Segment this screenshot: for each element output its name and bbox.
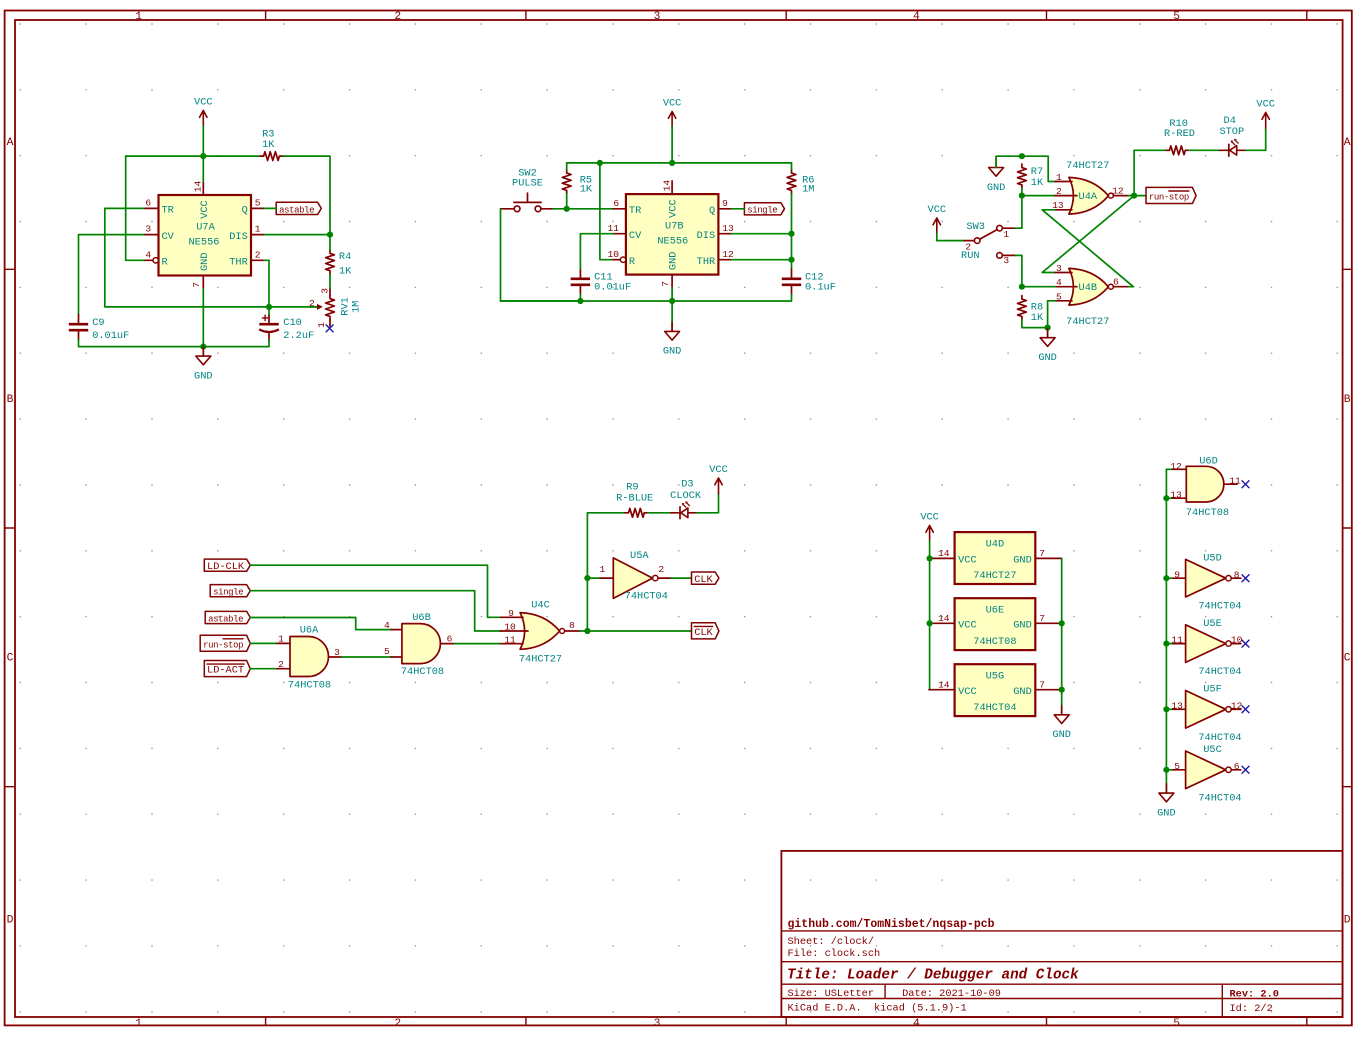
svg-text:CLK: CLK xyxy=(694,574,713,586)
svg-text:CLOCK: CLOCK xyxy=(670,490,702,502)
junction U5C input xyxy=(1163,767,1169,773)
svg-text:5: 5 xyxy=(1173,1018,1180,1030)
wire R10 to D4 xyxy=(1189,149,1220,151)
wire THR to C10 xyxy=(264,260,269,314)
svg-text:U4D: U4D xyxy=(986,539,1005,551)
svg-text:6: 6 xyxy=(145,198,151,209)
wire cross U4B pin3 to U4A out xyxy=(1042,196,1134,273)
svg-text:6: 6 xyxy=(613,198,619,209)
wire U5F stub xyxy=(1166,708,1171,710)
wire pin2 node to U4A pin2 xyxy=(1022,195,1055,197)
wire latch out up to R10 xyxy=(1134,150,1166,195)
svg-text:Size: USLetter: Size: USLetter xyxy=(788,988,875,1000)
svg-text:12: 12 xyxy=(1170,461,1182,472)
power flag GND (unused gates) xyxy=(1157,784,1176,820)
wire R3 to right vertical xyxy=(283,156,330,235)
svg-text:GND: GND xyxy=(1038,352,1057,364)
svg-text:U4B: U4B xyxy=(1079,282,1098,294)
wire cross U4A pin13 to U4B out xyxy=(1042,210,1133,287)
hierarchical label LD-ACT xyxy=(204,661,250,677)
wire VCC vertical (power blocks) xyxy=(929,541,931,690)
svg-text:U6D: U6D xyxy=(1199,455,1218,467)
svg-text:GND: GND xyxy=(194,370,213,382)
junction R7 top rail xyxy=(1019,153,1025,159)
AND gate U6B 74HCT08 xyxy=(384,612,455,678)
svg-text:1: 1 xyxy=(600,564,606,575)
NOR gate U4A 74HCT27 xyxy=(1052,160,1128,214)
switch SW2 PULSE xyxy=(501,167,554,211)
IC U7B NE556 xyxy=(607,180,734,288)
wire CV to C11 xyxy=(580,234,613,269)
svg-text:4: 4 xyxy=(913,11,920,23)
svg-text:VCC: VCC xyxy=(958,619,977,631)
svg-text:R-BLUE: R-BLUE xyxy=(616,493,653,505)
wire run-stop to U6A pin1 xyxy=(250,642,277,644)
wire output up to R9 row xyxy=(587,513,625,631)
svg-text:VCC: VCC xyxy=(1256,99,1275,111)
wire astable to U6B pin4 xyxy=(250,618,391,630)
svg-text:LD-ACT: LD-ACT xyxy=(207,665,244,677)
inverter U5C 74HCT04 (unused) xyxy=(1172,744,1242,804)
hierarchical label astable (input) xyxy=(205,611,250,624)
no-connect U5E output xyxy=(1242,640,1249,647)
svg-text:5: 5 xyxy=(384,646,390,657)
svg-text:1M: 1M xyxy=(351,301,363,313)
svg-text:5: 5 xyxy=(1174,761,1180,772)
hierarchical label run-stop (input) xyxy=(200,635,250,651)
wire U4B out stub xyxy=(1129,286,1134,288)
wire R5 to TR node xyxy=(566,194,568,209)
junction GND / U6E xyxy=(1059,620,1065,626)
wire rail to R5 xyxy=(566,163,568,170)
svg-text:1K: 1K xyxy=(339,266,352,278)
wire DIS to node xyxy=(732,233,792,235)
svg-text:GND: GND xyxy=(1157,807,1176,819)
wire R8 to GND node xyxy=(1022,320,1048,328)
svg-text:6: 6 xyxy=(447,634,453,645)
wire C12 to GND rail xyxy=(501,294,792,301)
svg-text:single: single xyxy=(213,588,243,598)
svg-text:Date: 2021-10-09: Date: 2021-10-09 xyxy=(902,988,1001,1000)
inverter U5D 74HCT04 (unused) xyxy=(1172,552,1242,612)
svg-text:6: 6 xyxy=(1234,761,1240,772)
svg-text:SW3: SW3 xyxy=(966,221,985,233)
svg-text:1: 1 xyxy=(278,634,284,645)
svg-text:VCC: VCC xyxy=(958,686,977,698)
junction pin13 xyxy=(1163,495,1169,501)
svg-text:R: R xyxy=(162,257,168,269)
wire SW2 left down to GND rail xyxy=(501,209,581,301)
svg-text:U7B: U7B xyxy=(665,220,684,232)
svg-text:NE556: NE556 xyxy=(189,236,220,248)
svg-text:1: 1 xyxy=(255,224,261,235)
wire unused-input vertical xyxy=(1165,469,1167,793)
svg-text:GND: GND xyxy=(1013,619,1032,631)
no-connect U6D output xyxy=(1242,481,1249,488)
svg-text:12: 12 xyxy=(1231,700,1243,711)
svg-text:U5C: U5C xyxy=(1203,744,1222,756)
svg-text:9: 9 xyxy=(722,198,728,209)
power flag GND (power blocks) xyxy=(1052,706,1071,742)
svg-text:STOP: STOP xyxy=(1219,126,1244,138)
wire U6D pin13 stub xyxy=(1166,497,1171,499)
inverter U5E 74HCT04 (unused) xyxy=(1171,618,1242,678)
wire pin4 node to U4B pin4 xyxy=(1022,286,1055,288)
wire U6A out to U6B pin5 xyxy=(342,656,391,658)
svg-text:1: 1 xyxy=(135,1018,142,1030)
svg-text:10: 10 xyxy=(607,249,619,260)
svg-text:4: 4 xyxy=(384,620,390,631)
svg-text:Rev: 2.0: Rev: 2.0 xyxy=(1230,988,1279,1000)
wire U5D stub xyxy=(1166,577,1171,579)
svg-text:THR: THR xyxy=(697,256,716,268)
capacitor C9 xyxy=(69,315,129,343)
hierarchical label astable xyxy=(276,202,321,215)
svg-text:7: 7 xyxy=(1039,613,1045,624)
svg-text:astable: astable xyxy=(279,205,314,215)
svg-text:3: 3 xyxy=(1003,255,1009,266)
svg-text:VCC: VCC xyxy=(920,512,939,524)
svg-text:3: 3 xyxy=(654,11,661,23)
power flag VCC (D3) xyxy=(709,464,728,493)
svg-text:C9: C9 xyxy=(92,317,104,329)
capacitor C10 xyxy=(259,315,314,343)
svg-text:CLK: CLK xyxy=(694,627,713,639)
svg-text:74HCT04: 74HCT04 xyxy=(1198,732,1241,744)
svg-text:2: 2 xyxy=(255,249,261,260)
wire Q to single xyxy=(732,208,745,210)
svg-text:DIS: DIS xyxy=(697,230,716,242)
svg-text:U6B: U6B xyxy=(412,612,431,624)
IC U4D 74HCT27 power xyxy=(929,532,1062,584)
title block xyxy=(781,851,1342,1017)
resistor R5 xyxy=(562,170,593,196)
svg-text:GND: GND xyxy=(199,252,211,271)
junction rail / reset vertical xyxy=(597,160,603,166)
svg-text:10: 10 xyxy=(504,621,516,632)
svg-text:11: 11 xyxy=(1171,635,1183,646)
wire VCC stem xyxy=(671,127,673,163)
junction R5 / TR xyxy=(564,206,570,212)
inverter U5A 74HCT04 xyxy=(600,550,672,603)
svg-text:Q: Q xyxy=(242,205,248,217)
svg-text:U5E: U5E xyxy=(1203,618,1222,630)
junction GND / U5G xyxy=(1059,687,1065,693)
wire R7 to pin2 node xyxy=(1021,189,1023,196)
IC U5G 74HCT04 power xyxy=(929,664,1062,716)
svg-text:11: 11 xyxy=(504,634,516,645)
svg-text:U6A: U6A xyxy=(300,625,319,637)
power flag VCC (SW3) xyxy=(928,204,947,233)
power flag GND (R8) xyxy=(1038,328,1057,364)
wire pin14 stem xyxy=(202,156,204,183)
svg-text:74HCT04: 74HCT04 xyxy=(1198,792,1241,804)
junction rail / pin14 xyxy=(669,160,675,166)
hierarchical label LD-CLK xyxy=(204,559,250,573)
wire SW3 pin1 up to set node xyxy=(1015,196,1022,229)
svg-text:14: 14 xyxy=(938,679,950,690)
svg-text:74HCT04: 74HCT04 xyxy=(625,590,668,602)
wire VCC stem to rail xyxy=(202,126,204,156)
svg-text:1K: 1K xyxy=(1031,312,1044,324)
svg-text:1K: 1K xyxy=(1031,177,1044,189)
svg-text:74HCT08: 74HCT08 xyxy=(973,636,1016,648)
svg-text:4: 4 xyxy=(1056,277,1062,288)
svg-text:2: 2 xyxy=(394,11,401,23)
NOR gate U4B 74HCT27 xyxy=(1055,263,1129,328)
resistor R3 xyxy=(260,129,283,161)
hierarchical label CLK inverted xyxy=(692,623,719,639)
wire U5E stub xyxy=(1166,643,1171,645)
svg-text:9: 9 xyxy=(1174,569,1180,580)
inverter U5F 74HCT04 (unused) xyxy=(1171,684,1242,744)
power flag VCC (U7A section) xyxy=(194,97,213,126)
wire U5C stub xyxy=(1166,769,1171,771)
svg-text:1M: 1M xyxy=(802,184,814,196)
svg-text:74HCT08: 74HCT08 xyxy=(401,666,444,678)
junction U5E input xyxy=(1163,641,1169,647)
junction THR/C12 xyxy=(788,257,794,263)
svg-text:12: 12 xyxy=(722,249,734,260)
svg-text:GND: GND xyxy=(1013,555,1032,567)
svg-text:A: A xyxy=(7,137,14,149)
svg-text:U5F: U5F xyxy=(1203,684,1222,696)
svg-text:2: 2 xyxy=(658,564,664,575)
wire D3 to VCC xyxy=(697,494,719,513)
svg-text:PULSE: PULSE xyxy=(512,178,543,190)
svg-text:5: 5 xyxy=(1056,291,1062,302)
svg-text:KiCad E.D.A. kicad (5.1.9)-1: KiCad E.D.A. kicad (5.1.9)-1 xyxy=(788,1002,967,1014)
power flag GND (U7A section) xyxy=(194,347,213,383)
wire single to U4C pin10 xyxy=(250,591,500,631)
svg-text:GND: GND xyxy=(668,252,680,271)
wire SW3 pin3 down to reset node xyxy=(1015,255,1022,286)
svg-text:74HCT04: 74HCT04 xyxy=(1198,601,1241,613)
svg-text:7: 7 xyxy=(660,281,671,287)
junction GND rail xyxy=(200,344,206,350)
svg-text:CV: CV xyxy=(162,231,175,243)
wire DIS to vertical xyxy=(264,234,330,236)
wire R4 to RV1 xyxy=(329,274,331,289)
wire R9 to D3 xyxy=(648,512,671,514)
junction pin2 node xyxy=(1019,193,1025,199)
junction U5A input node xyxy=(584,575,590,581)
svg-text:74HCT27: 74HCT27 xyxy=(973,570,1016,582)
wire node to U5A pin1 xyxy=(587,577,600,579)
power flag GND (U7B section) xyxy=(663,322,682,358)
svg-text:74HCT08: 74HCT08 xyxy=(1186,507,1229,519)
svg-text:R-RED: R-RED xyxy=(1164,128,1195,140)
svg-text:0.01uF: 0.01uF xyxy=(92,330,129,342)
svg-text:A: A xyxy=(1344,137,1351,149)
svg-text:74HCT04: 74HCT04 xyxy=(1198,666,1241,678)
wire LD-ACT to U6A pin2 xyxy=(250,668,277,670)
svg-text:astable: astable xyxy=(208,614,243,624)
svg-text:2: 2 xyxy=(394,1018,401,1030)
NOR gate U4C 74HCT27 xyxy=(500,600,580,666)
svg-text:VCC: VCC xyxy=(663,98,682,110)
no-connect RV1 pin 1 xyxy=(326,325,333,332)
resistor R6 xyxy=(787,170,814,196)
svg-text:3: 3 xyxy=(320,288,331,294)
svg-text:THR: THR xyxy=(229,257,248,269)
svg-text:74HCT08: 74HCT08 xyxy=(288,680,331,692)
resistor R7 xyxy=(1018,164,1044,189)
resistor R10 xyxy=(1164,118,1195,155)
AND gate U6A 74HCT08 xyxy=(277,625,342,692)
svg-text:U5A: U5A xyxy=(630,550,649,562)
svg-text:DIS: DIS xyxy=(229,231,248,243)
hierarchical label CLK xyxy=(692,572,719,586)
svg-text:Id: 2/2: Id: 2/2 xyxy=(1230,1003,1273,1015)
svg-text:6: 6 xyxy=(1113,277,1119,288)
svg-text:1: 1 xyxy=(1003,229,1009,240)
svg-text:5: 5 xyxy=(1173,11,1180,23)
wire Q to astable xyxy=(264,207,276,209)
svg-text:8: 8 xyxy=(569,620,575,631)
resistor R8 xyxy=(1018,296,1044,325)
svg-text:Q: Q xyxy=(709,205,715,217)
junction DIS node xyxy=(327,232,333,238)
svg-text:74HCT04: 74HCT04 xyxy=(973,702,1016,714)
junction VCC / U4D xyxy=(927,555,933,561)
junction pin4 node xyxy=(1019,284,1025,290)
svg-text:1K: 1K xyxy=(580,184,593,196)
svg-text:D3: D3 xyxy=(681,478,693,490)
wire GND pin stem xyxy=(202,289,204,356)
svg-text:VCC: VCC xyxy=(668,199,680,218)
junction GND rail / pin7 xyxy=(669,298,675,304)
wire rail to U4A pin1 xyxy=(1022,156,1055,181)
svg-text:github.com/TomNisbet/nqsap-pcb: github.com/TomNisbet/nqsap-pcb xyxy=(788,918,995,931)
wire VCC rail (U7B) xyxy=(567,162,792,164)
svg-text:2: 2 xyxy=(1056,186,1062,197)
svg-text:U7A: U7A xyxy=(196,221,215,233)
wire SW2 to TR xyxy=(553,208,613,210)
svg-text:VCC: VCC xyxy=(709,464,728,476)
wire DIS to R4 xyxy=(329,235,331,250)
wire U6B out to U4C pin11 xyxy=(455,643,501,645)
svg-text:Title: Loader / Debugger and C: Title: Loader / Debugger and Clock xyxy=(787,968,1079,984)
LED D4 STOP xyxy=(1219,115,1245,156)
svg-text:R4: R4 xyxy=(339,251,351,263)
wire GND stem (R8) xyxy=(1047,328,1049,338)
svg-text:2: 2 xyxy=(965,241,971,252)
svg-text:B: B xyxy=(7,394,14,406)
svg-text:CV: CV xyxy=(629,230,642,242)
IC U7A NE556 xyxy=(145,181,264,289)
svg-text:8: 8 xyxy=(1234,569,1240,580)
junction wiper node xyxy=(266,304,272,310)
svg-text:7: 7 xyxy=(1039,548,1045,559)
wire LD-CLK to U4C pin9 xyxy=(250,565,500,617)
svg-text:File: clock.sch: File: clock.sch xyxy=(788,948,881,960)
wire GND vertical (power blocks) xyxy=(1061,558,1063,714)
svg-text:2.2uF: 2.2uF xyxy=(283,330,314,342)
power flag VCC (D4) xyxy=(1256,99,1275,128)
svg-text:Sheet: /clock/: Sheet: /clock/ xyxy=(788,936,875,948)
junction U5F input xyxy=(1163,706,1169,712)
svg-text:NE556: NE556 xyxy=(657,235,688,247)
junction DIS/R6 xyxy=(788,231,794,237)
svg-text:C10: C10 xyxy=(283,317,302,329)
junction VCC rail / pin14 xyxy=(200,153,206,159)
svg-text:VCC: VCC xyxy=(958,555,977,567)
power flag VCC (power blocks) xyxy=(920,512,939,541)
svg-text:U6E: U6E xyxy=(986,605,1005,617)
svg-text:VCC: VCC xyxy=(194,97,213,109)
svg-text:3: 3 xyxy=(654,1018,661,1030)
wire C10 to GND rail xyxy=(203,340,269,347)
potentiometer RV1 xyxy=(309,288,362,328)
IC U6E 74HCT08 power xyxy=(929,598,1062,650)
svg-text:U5G: U5G xyxy=(986,671,1005,683)
svg-text:74HCT27: 74HCT27 xyxy=(519,653,562,665)
svg-text:12: 12 xyxy=(1112,185,1124,196)
wire U5A out to CLK xyxy=(671,577,691,579)
wire TR to RV1 wiper xyxy=(105,208,318,307)
wire C9 to GND rail xyxy=(79,340,204,347)
svg-text:11: 11 xyxy=(1229,476,1241,487)
svg-text:single: single xyxy=(747,206,777,216)
wire R6 to DIS node xyxy=(791,194,793,234)
svg-text:GND: GND xyxy=(987,182,1006,194)
capacitor C12 xyxy=(782,269,836,294)
junction U4C output xyxy=(584,628,590,634)
svg-text:13: 13 xyxy=(1170,490,1182,501)
svg-text:11: 11 xyxy=(607,223,619,234)
wire GND up to R7 rail xyxy=(996,156,1022,167)
svg-text:3: 3 xyxy=(145,224,151,235)
svg-text:R: R xyxy=(629,256,635,268)
no-connect U5F output xyxy=(1242,706,1249,713)
no-connect U5C output xyxy=(1242,766,1249,773)
svg-text:U5D: U5D xyxy=(1203,552,1222,564)
svg-text:GND: GND xyxy=(663,346,682,358)
svg-text:1K: 1K xyxy=(262,139,275,151)
hierarchical label single xyxy=(744,203,784,216)
power flag VCC (U7B section) xyxy=(663,98,682,127)
svg-text:D: D xyxy=(7,915,14,927)
wire VCC rail left segment xyxy=(126,155,260,157)
wire reset vertical xyxy=(600,163,613,260)
wire D4 to VCC xyxy=(1246,128,1266,150)
svg-text:74HCT27: 74HCT27 xyxy=(1066,316,1109,328)
junction VCC / U6E xyxy=(927,620,933,626)
hierarchical label single (input) xyxy=(210,585,250,598)
wire THR to node xyxy=(732,259,792,261)
svg-text:10: 10 xyxy=(1231,635,1243,646)
junction U4A output xyxy=(1131,193,1137,199)
svg-text:GND: GND xyxy=(1052,729,1071,741)
wire C11 to GND rail xyxy=(579,294,581,301)
svg-text:C: C xyxy=(1344,653,1351,665)
wire CV to C9 xyxy=(79,235,146,315)
svg-text:9: 9 xyxy=(508,608,514,619)
switch SW3 RUN xyxy=(961,221,1015,266)
svg-text:1: 1 xyxy=(1056,172,1062,183)
resistor R9 xyxy=(616,482,653,518)
LED D3 CLOCK xyxy=(670,478,702,518)
svg-text:74HCT27: 74HCT27 xyxy=(1066,160,1109,172)
svg-text:3: 3 xyxy=(1056,263,1062,274)
resistor R4 xyxy=(326,250,352,278)
svg-text:4: 4 xyxy=(913,1018,920,1030)
svg-text:TR: TR xyxy=(629,205,641,217)
svg-text:run-stop: run-stop xyxy=(203,640,243,650)
wire rail to R6 xyxy=(791,163,793,170)
capacitor C11 xyxy=(571,269,631,294)
